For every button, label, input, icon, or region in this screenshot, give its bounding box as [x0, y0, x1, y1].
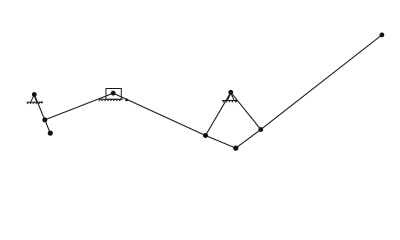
node joint B	[42, 117, 47, 122]
wire link E-F	[206, 136, 236, 149]
ground right pivot support	[222, 93, 237, 102]
node slider pin D	[111, 91, 116, 96]
wire link G-P	[231, 92, 261, 129]
node pivot pin A	[32, 92, 37, 97]
node ground-end dot right	[235, 100, 237, 102]
wire link B-D	[45, 93, 113, 120]
node joint E	[203, 133, 208, 138]
wire link D-E	[113, 93, 205, 135]
wire link E-P	[206, 92, 231, 135]
slider block on ground	[99, 89, 123, 102]
node joint F	[233, 146, 238, 151]
wire link F-G	[236, 130, 261, 149]
node dot on link at slider ground end	[125, 99, 128, 102]
node joint G	[258, 127, 263, 132]
wire link G-H	[261, 35, 382, 130]
node joint C	[48, 131, 53, 136]
wire link B-C	[45, 120, 51, 133]
node pivot pin P	[228, 90, 233, 95]
node ground-end dot left	[41, 101, 43, 103]
node joint H	[380, 33, 385, 38]
wire link A-B	[34, 95, 45, 120]
ground left pivot support	[27, 95, 43, 104]
